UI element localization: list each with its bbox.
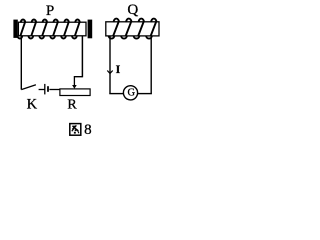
rheostat wiper arrow and link wire	[74, 77, 82, 85]
current arrow I	[107, 71, 112, 74]
svg-text:P: P	[46, 3, 54, 19]
coil Q windings	[109, 19, 157, 39]
coil Q body	[106, 22, 159, 36]
coil P body	[18, 22, 86, 36]
coil P windings	[18, 19, 80, 38]
svg-text:I: I	[116, 62, 121, 76]
svg-text:K: K	[27, 97, 38, 113]
wire: P left lead down	[20, 36, 22, 90]
wire: P right lead down	[81, 36, 83, 78]
switch K blade	[21, 85, 36, 90]
svg-text:R: R	[67, 97, 77, 112]
wire: battery to rheostat	[49, 89, 60, 91]
wire: switch to battery	[39, 89, 45, 91]
coil P core left cap	[13, 20, 17, 38]
wire: G to bottom right	[137, 93, 152, 95]
wire: Q right lead down	[150, 36, 152, 94]
wire: Q left lead down	[109, 36, 111, 94]
coil P core right cap	[88, 20, 93, 39]
battery long plate	[44, 84, 46, 95]
galvanometer G	[123, 86, 137, 100]
svg-text:8: 8	[84, 122, 92, 138]
svg-text:G: G	[128, 88, 136, 99]
svg-text:Q: Q	[127, 2, 138, 18]
rheostat R box	[60, 89, 90, 96]
wire: bottom left to G	[109, 93, 124, 95]
battery short plate	[47, 86, 49, 92]
caption: character 图	[70, 124, 81, 136]
